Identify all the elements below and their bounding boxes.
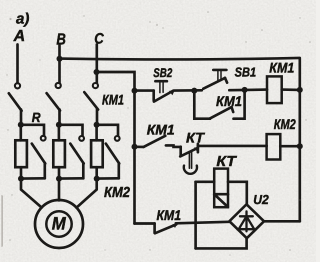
- resistor R1: [15, 125, 27, 179]
- wire row3 left: [135, 222, 155, 225]
- wire phase A drop: [16, 45, 19, 83]
- node row1 right: [297, 87, 303, 93]
- node row1 left: [132, 88, 138, 94]
- wire KT loop left vertical: [194, 182, 197, 249]
- label U2: [253, 192, 269, 207]
- wire KT coil branch left: [196, 180, 215, 183]
- motor M: [35, 200, 83, 248]
- wire row2 right: [280, 145, 300, 148]
- wire motor lead B: [58, 179, 61, 201]
- label SB2: [153, 66, 172, 80]
- resistor R3: [91, 125, 103, 179]
- node branch2 bottom: [56, 176, 62, 182]
- svg-text:КТ: КТ: [216, 154, 237, 170]
- node C label: [94, 30, 105, 47]
- contactor coil KM2: [267, 134, 281, 159]
- switch Q contact phase A: [9, 83, 22, 111]
- time delay umbrella: [184, 152, 197, 174]
- wire left rail: [133, 91, 136, 224]
- contactor KM2 bypass contact 1: [21, 125, 46, 179]
- wire C to left rail: [97, 72, 135, 91]
- node SB1 left: [191, 88, 197, 94]
- node C junction: [94, 69, 100, 75]
- node B junction: [57, 56, 63, 62]
- contact KM1 break bottom: [155, 224, 178, 234]
- switch Q contact phase B: [47, 83, 61, 111]
- svg-text:КМ2: КМ2: [274, 116, 296, 132]
- label KM2 coil: [274, 116, 296, 132]
- label KM1 main contacts: [102, 91, 124, 107]
- svg-text:КТ: КТ: [186, 129, 205, 145]
- node row2 left: [132, 144, 138, 150]
- wire KT loop bottom: [196, 238, 247, 249]
- wire branch2 bottom: [59, 177, 83, 180]
- motor M letter: [52, 214, 67, 234]
- label KM1 row2: [147, 122, 175, 138]
- button SB2: [154, 81, 175, 101]
- label KM1 bottom: [157, 207, 182, 223]
- resistor R2: [53, 125, 65, 179]
- wire row1 b: [174, 89, 202, 92]
- svg-text:A: A: [13, 28, 26, 45]
- wire KT coil to U2 top: [228, 182, 247, 205]
- contactor coil KM1: [267, 76, 282, 103]
- wire branch1 bottom: [21, 177, 45, 180]
- relay coil KT: [214, 169, 228, 208]
- svg-text:КМ1: КМ1: [269, 59, 294, 75]
- node row2 right: [297, 143, 303, 149]
- wire right rail: [298, 59, 301, 222]
- button SB1: [203, 70, 227, 89]
- svg-text:КМ2: КМ2: [104, 185, 130, 201]
- label a): [16, 11, 29, 28]
- label KM2 bypass: [104, 185, 130, 201]
- wire row3 to U2 left: [176, 222, 230, 224]
- node SB1 right: [242, 87, 248, 93]
- contact KT timed: [180, 144, 198, 157]
- svg-text:М: М: [52, 214, 67, 234]
- label KT coil: [216, 154, 237, 170]
- wire top rail B to control: [60, 58, 300, 60]
- svg-text:SB2: SB2: [153, 66, 172, 80]
- svg-text:а): а): [16, 11, 29, 28]
- svg-text:R: R: [32, 110, 41, 125]
- svg-text:КМ1: КМ1: [216, 93, 242, 109]
- contactor KM2 bypass contact 3: [97, 125, 120, 179]
- svg-text:U2: U2: [253, 192, 269, 207]
- wire phase B drop: [58, 46, 61, 83]
- svg-text:B: B: [56, 31, 66, 48]
- label KM1 aux: [216, 93, 242, 109]
- wire row1 a: [134, 89, 154, 92]
- contactor KM2 bypass contact 2: [59, 125, 84, 179]
- wire U2 right to rail: [264, 220, 300, 223]
- node branch3 bottom: [94, 176, 100, 182]
- wire phase C lower: [96, 109, 99, 126]
- node branch2 top: [56, 122, 62, 128]
- svg-text:SB1: SB1: [235, 64, 257, 79]
- node A label: [13, 28, 26, 45]
- label KM1 coil: [269, 59, 294, 75]
- wire phase A lower: [20, 110, 23, 126]
- node branch3 top: [94, 122, 100, 128]
- contact KM1 row2: [135, 136, 181, 147]
- node B label: [56, 31, 66, 48]
- wire row2 to KM2 coil: [198, 145, 267, 148]
- label SB1: [235, 64, 257, 79]
- wire row1 c: [229, 88, 267, 91]
- wire branch3 bottom: [97, 177, 119, 180]
- svg-text:КМ1: КМ1: [102, 91, 124, 107]
- svg-text:КМ1: КМ1: [147, 122, 175, 138]
- switch Q contact phase C: [84, 83, 98, 110]
- scan streak left edge: [1, 196, 3, 246]
- wire motor lead A: [21, 179, 42, 208]
- label KT contact: [186, 129, 205, 145]
- node branch1 bottom: [18, 176, 24, 182]
- contact KM1 aux self-holding: [194, 90, 244, 119]
- label R: [32, 110, 41, 125]
- svg-text:КМ1: КМ1: [157, 207, 182, 223]
- wire row1 d: [282, 88, 300, 91]
- wire phase C drop: [95, 45, 98, 83]
- wire phase B lower: [58, 110, 61, 126]
- rectifier U2: [229, 204, 264, 238]
- node branch1 top: [18, 122, 24, 128]
- wire motor lead C: [77, 179, 97, 208]
